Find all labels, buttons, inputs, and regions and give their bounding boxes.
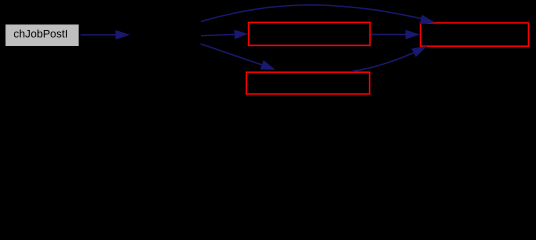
node chJobPostI (gray box) [6,25,79,47]
wire chJobPostI to hidden node (arrow) [81,30,131,40]
wire bottom red box to right red box (arrow) [351,46,427,72]
node middle red box [249,22,370,45]
node hidden (invisible black) [135,24,200,46]
wire middle red box to right red box (arrow) [371,30,420,40]
wire hidden node to right red box (top arc arrow) [201,5,435,24]
wire hidden node to middle red box (arrow) [201,30,248,40]
svg-text:chJobPostI: chJobPostI [13,29,67,41]
wire hidden node to bottom red box (diagonal arrow) [201,44,276,70]
node bottom red box [246,72,369,94]
node right red box [421,23,529,46]
